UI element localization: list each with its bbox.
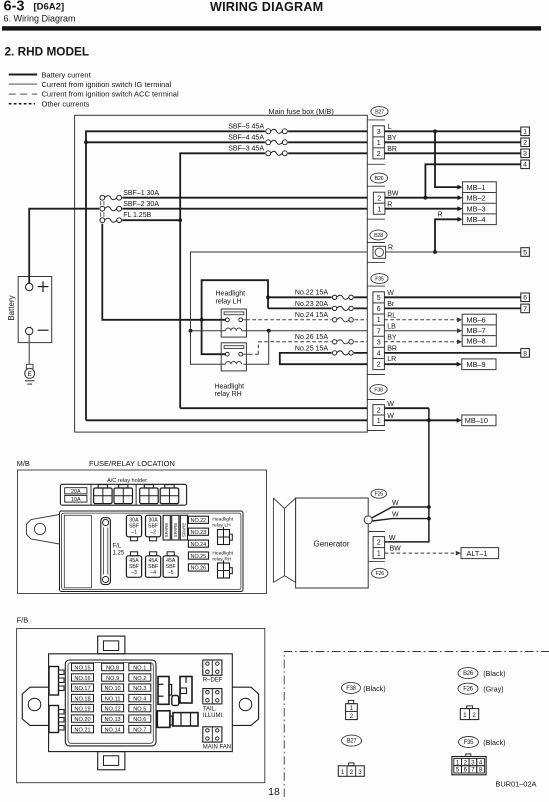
svg-text:Battery: Battery	[7, 295, 16, 320]
svg-text:NO.19: NO.19	[74, 706, 90, 712]
svg-text:2: 2	[377, 151, 381, 158]
fuse slot	[129, 725, 151, 732]
wire battery negative	[28, 335, 30, 365]
svg-text:SBF–4 45A: SBF–4 45A	[228, 135, 264, 142]
wire SBF-3	[180, 153, 367, 408]
svg-text:2: 2	[377, 540, 381, 547]
legend other currents	[9, 103, 35, 105]
svg-text:NO.15: NO.15	[74, 665, 90, 671]
svg-text:NO.1: NO.1	[133, 665, 146, 671]
svg-text:NO.22: NO.22	[191, 518, 207, 524]
svg-text:(Gray): (Gray)	[483, 685, 503, 694]
svg-text:2: 2	[377, 407, 381, 414]
svg-text:NO.8: NO.8	[106, 665, 119, 671]
fuse No.24 15A	[332, 317, 355, 324]
svg-text:–5: –5	[168, 570, 174, 576]
svg-text:[D6A2]: [D6A2]	[34, 2, 65, 13]
wire relay supply rect	[202, 280, 268, 320]
svg-text:WIRING DIAGRAM: WIRING DIAGRAM	[210, 0, 323, 14]
fuse slot	[72, 684, 94, 691]
svg-text:F/L: F/L	[113, 544, 122, 550]
svg-text:2: 2	[377, 362, 381, 369]
legend IG current	[9, 83, 38, 85]
svg-text:NO.9: NO.9	[106, 676, 119, 682]
svg-text:18: 18	[268, 786, 280, 797]
wire L to terminal 1	[384, 130, 520, 132]
F/B bottom tab	[98, 752, 125, 770]
MB-10 box	[462, 415, 496, 426]
connector B26	[370, 173, 387, 183]
M/B location frame	[18, 470, 267, 594]
wire MB-1	[435, 131, 458, 187]
fuse SBF-1 30A	[102, 197, 367, 199]
svg-text:NO.11: NO.11	[105, 696, 121, 702]
fuse SBF-2 30A	[102, 208, 367, 210]
svg-text:6-3: 6-3	[4, 0, 25, 15]
wire generator W upper	[372, 507, 429, 518]
svg-text:NO.6: NO.6	[133, 717, 146, 723]
connector B27	[371, 107, 388, 117]
No.22-26 slots	[188, 516, 208, 523]
SBF fuse	[146, 556, 161, 578]
svg-text:1: 1	[377, 317, 381, 324]
wire left bus	[102, 223, 201, 320]
fuse slot	[129, 663, 151, 670]
svg-text:MAIN FAN: MAIN FAN	[203, 744, 231, 750]
svg-text:20A: 20A	[71, 489, 81, 495]
svg-text:RL: RL	[387, 312, 396, 319]
svg-text:BR: BR	[387, 146, 397, 153]
fuse SBF-4 45A	[265, 139, 288, 146]
MB-6..8 boxes	[462, 314, 496, 346]
svg-text:W: W	[387, 413, 394, 420]
svg-text:MB–2: MB–2	[467, 194, 486, 203]
wire BR to terminal 8	[384, 352, 520, 354]
svg-text:Other currents: Other currents	[42, 99, 90, 108]
svg-text:Headlight: Headlight	[216, 291, 246, 298]
svg-text:Battery current: Battery current	[42, 70, 92, 79]
svg-text:NO.14: NO.14	[105, 727, 121, 733]
svg-text:NO.10: NO.10	[105, 686, 121, 692]
terminal box 5	[521, 248, 530, 257]
F/B middle cluster	[158, 677, 169, 705]
fuse No.26 15A	[332, 339, 355, 346]
connector view F26	[458, 683, 478, 694]
svg-text:NO.3: NO.3	[133, 686, 146, 692]
svg-text:F26: F26	[376, 571, 385, 577]
terminal box 4	[521, 160, 530, 169]
svg-text:NO.20: NO.20	[74, 717, 90, 723]
svg-text:W: W	[392, 511, 399, 518]
svg-text:ILLUMI.: ILLUMI.	[203, 713, 224, 719]
wire RH contact to No.26	[243, 353, 249, 355]
header rule	[2, 26, 541, 30]
svg-text:BUR01–02A: BUR01–02A	[495, 780, 536, 789]
svg-text:5: 5	[377, 295, 381, 302]
svg-text:MB–1: MB–1	[467, 183, 486, 192]
svg-text:NO.12: NO.12	[105, 706, 121, 712]
svg-text:No.23 20A: No.23 20A	[295, 301, 328, 308]
wire F38 W pin2	[180, 407, 367, 409]
connector view F35	[459, 737, 479, 748]
fuse slot	[72, 663, 94, 670]
fuse FL 1.25B	[102, 219, 180, 221]
svg-text:MB–8: MB–8	[467, 337, 486, 346]
wire LB branch down	[244, 331, 269, 365]
svg-text:7: 7	[523, 306, 527, 313]
junction supply/No.22	[266, 295, 270, 299]
svg-text:NO.17: NO.17	[74, 686, 90, 692]
svg-text:M/B: M/B	[17, 459, 30, 468]
fuse slot	[102, 663, 124, 670]
svg-text:R: R	[387, 201, 392, 208]
svg-text:Headlight: Headlight	[212, 517, 233, 523]
wire SBF-5 feed	[86, 131, 367, 420]
fuse slot	[102, 694, 124, 701]
wire battery positive	[29, 209, 102, 284]
wire B28 R to terminal 5	[386, 251, 521, 253]
svg-text:1: 1	[377, 418, 381, 425]
connector view F38	[342, 682, 361, 693]
svg-text:LR: LR	[387, 356, 396, 363]
relay socket	[114, 488, 133, 504]
fuse slot	[72, 704, 94, 711]
svg-text:MB–3: MB–3	[467, 204, 486, 213]
SBF fuse	[163, 556, 178, 578]
legend ACC current	[9, 93, 38, 95]
svg-text:NO.7: NO.7	[133, 727, 146, 733]
svg-text:4: 4	[377, 351, 381, 358]
spare fuses	[163, 515, 170, 540]
svg-text:SBF–5 45A: SBF–5 45A	[228, 124, 264, 131]
svg-text:BY: BY	[387, 135, 397, 142]
generator body	[296, 498, 369, 588]
F/B left connectors	[49, 667, 59, 696]
wire F38 W pin1 / MB-10	[86, 419, 367, 421]
svg-text:NO.26: NO.26	[191, 566, 207, 572]
svg-text:NO.18: NO.18	[74, 696, 90, 702]
fuse slot	[72, 725, 94, 732]
relay socket	[160, 488, 179, 504]
wire generator column	[385, 408, 429, 542]
svg-text:NO.5: NO.5	[133, 706, 146, 712]
svg-text:–4: –4	[150, 570, 156, 576]
svg-text:3: 3	[377, 129, 381, 136]
svg-text:W: W	[387, 401, 394, 408]
wire BY to terminal 2	[384, 141, 520, 143]
svg-text:MB–7: MB–7	[467, 326, 486, 335]
svg-text:B26: B26	[375, 176, 384, 182]
wire No.22	[268, 296, 367, 298]
svg-text:W: W	[392, 500, 399, 507]
svg-text:B27: B27	[347, 739, 358, 745]
connector view B26	[458, 668, 478, 679]
wire Br to terminal 7	[384, 307, 520, 309]
connector F25/F26 pins	[368, 531, 385, 533]
svg-text:4: 4	[523, 162, 527, 169]
wire SBF-4	[86, 141, 367, 143]
SBF fuse	[126, 556, 141, 578]
svg-text:TAIL.: TAIL.	[203, 706, 217, 712]
relay R-DEF	[203, 660, 222, 675]
F/B frame	[17, 629, 265, 783]
svg-text:E: E	[28, 371, 32, 378]
svg-text:FUSE/RELAY LOCATION: FUSE/RELAY LOCATION	[89, 459, 175, 468]
wire W to terminal 6	[384, 296, 520, 298]
MB-9 box	[462, 359, 496, 370]
wire to terminal 4	[425, 164, 520, 197]
fuse No.25 15A	[332, 350, 355, 357]
fuse slot	[102, 715, 124, 722]
svg-text:1: 1	[523, 129, 527, 136]
svg-text:BY: BY	[387, 334, 397, 341]
connector F25	[371, 489, 387, 498]
wire B28 R inside	[191, 252, 368, 331]
svg-text:B26: B26	[463, 671, 474, 677]
relay socket	[140, 488, 159, 504]
blank column	[64, 515, 91, 588]
connector view B27	[342, 735, 362, 746]
section border dash-dot	[284, 652, 549, 798]
svg-text:No.26 15A: No.26 15A	[295, 334, 328, 341]
svg-text:relay RH: relay RH	[212, 557, 231, 563]
svg-text:6: 6	[523, 295, 527, 302]
svg-text:A/C relay holder: A/C relay holder	[107, 478, 147, 484]
junction SBF-4 tap	[84, 140, 88, 144]
svg-text:NO.24: NO.24	[191, 542, 207, 548]
fuse slot	[102, 704, 124, 711]
svg-text:MB–6: MB–6	[467, 315, 486, 324]
ALT-1 box	[461, 548, 499, 559]
wire BW / MB-2	[385, 197, 458, 199]
svg-text:R: R	[438, 212, 443, 219]
fuse No.22 15A	[332, 294, 355, 301]
svg-text:5: 5	[523, 249, 527, 256]
svg-text:W: W	[387, 290, 394, 297]
svg-text:NO.25: NO.25	[191, 554, 207, 560]
svg-text:Current from ignition switch A: Current from ignition switch ACC termina…	[42, 90, 179, 99]
ground E	[26, 364, 33, 369]
legend battery current	[9, 74, 38, 76]
fuse slot	[102, 674, 124, 681]
svg-text:BR: BR	[387, 346, 397, 353]
svg-text:No.25 15A: No.25 15A	[295, 345, 328, 352]
svg-text:8: 8	[523, 350, 527, 357]
svg-text:(Black): (Black)	[363, 684, 385, 693]
F/B right ear	[232, 687, 258, 725]
svg-text:SBF–3 45A: SBF–3 45A	[228, 146, 264, 153]
svg-text:F25: F25	[375, 492, 384, 498]
svg-text:3: 3	[523, 151, 527, 158]
svg-text:NO.2: NO.2	[133, 676, 146, 682]
svg-text:–2: –2	[150, 530, 156, 536]
wire generator W lower	[372, 519, 429, 521]
svg-text:R: R	[388, 245, 393, 252]
fuse SBF-5 45A	[265, 128, 288, 135]
F/B left ear	[22, 687, 48, 725]
svg-text:1.25: 1.25	[113, 551, 125, 557]
wire RH coil return	[191, 331, 226, 365]
svg-text:MB–4: MB–4	[467, 215, 486, 224]
fuse slot	[72, 694, 94, 701]
svg-text:10A: 10A	[71, 497, 81, 503]
wire BY / MB-8	[384, 341, 457, 343]
svg-text:R–DEF: R–DEF	[203, 677, 223, 683]
wire BW to ALT-1	[385, 552, 457, 554]
svg-text:FL 1.25B: FL 1.25B	[123, 212, 151, 219]
fuse slot	[72, 674, 94, 681]
svg-text:relay LH: relay LH	[216, 298, 242, 305]
svg-text:SPARE: SPARE	[181, 523, 186, 538]
svg-text:1: 1	[377, 140, 381, 147]
svg-text:MB–9: MB–9	[467, 360, 486, 369]
SBF fuse	[126, 515, 141, 537]
svg-text:Headlight: Headlight	[212, 550, 233, 556]
svg-text:1: 1	[377, 206, 381, 213]
svg-text:1: 1	[377, 551, 381, 558]
generator pulley	[273, 498, 295, 582]
svg-text:2. RHD MODEL: 2. RHD MODEL	[5, 45, 90, 59]
fuse slot	[72, 715, 94, 722]
svg-text:BW: BW	[390, 546, 402, 553]
relay MAIN FAN	[203, 727, 222, 742]
relay socket	[94, 488, 113, 504]
svg-text:F38: F38	[374, 388, 383, 394]
svg-text:–1: –1	[131, 530, 137, 536]
wire MB-4	[435, 219, 458, 252]
terminal box 1	[521, 127, 530, 136]
svg-text:2: 2	[523, 140, 527, 147]
fusible link F/L 1.25	[101, 518, 111, 585]
wire RL / MB-6	[384, 319, 457, 321]
wire relay RH feed	[202, 320, 226, 354]
fuse slot	[102, 684, 124, 691]
wire LB / MB-7	[384, 330, 457, 332]
svg-text:MB–10: MB–10	[465, 416, 488, 425]
svg-text:NO.21: NO.21	[74, 727, 90, 733]
SBF fuse	[146, 515, 161, 537]
svg-text:No.22 15A: No.22 15A	[295, 290, 328, 297]
svg-text:SBF–1 30A: SBF–1 30A	[123, 190, 159, 197]
node L junction	[433, 129, 437, 133]
svg-text:NO.4: NO.4	[133, 696, 146, 702]
relay TAIL ILLUMI	[203, 689, 222, 704]
svg-text:Br: Br	[387, 301, 395, 308]
fuse No.23 20A	[332, 305, 355, 312]
connector F35	[371, 274, 388, 284]
svg-text:F35: F35	[375, 277, 384, 283]
svg-text:SBF–2 30A: SBF–2 30A	[123, 201, 159, 208]
svg-text:BW: BW	[387, 190, 399, 197]
svg-text:F26: F26	[463, 687, 473, 693]
svg-text:(Black): (Black)	[483, 669, 505, 678]
terminal box 2	[521, 138, 530, 147]
svg-text:Generator: Generator	[313, 540, 349, 549]
mounting tab	[27, 515, 60, 545]
fuse slot	[102, 725, 124, 732]
svg-text:SPARE: SPARE	[164, 523, 169, 538]
svg-text:W: W	[389, 535, 396, 542]
junction relay feed	[200, 318, 204, 322]
svg-text:2: 2	[377, 195, 381, 202]
connector F38	[370, 385, 387, 395]
fuse slot	[129, 715, 151, 722]
svg-text:Main fuse box (M/B): Main fuse box (M/B)	[269, 107, 334, 116]
fuse slot	[129, 694, 151, 701]
svg-text:NO.16: NO.16	[74, 676, 90, 682]
fuse slot	[129, 704, 151, 711]
svg-text:7: 7	[377, 328, 381, 335]
svg-text:L: L	[388, 124, 392, 131]
svg-text:NO.13: NO.13	[105, 717, 121, 723]
F/B top tab	[98, 636, 125, 654]
connector B28	[370, 230, 387, 240]
wire R / MB-3	[385, 208, 458, 210]
svg-text:F35: F35	[464, 740, 474, 746]
svg-text:ALT–1: ALT–1	[467, 549, 488, 558]
svg-text:relay LH: relay LH	[212, 523, 231, 529]
wire LB / LH coil	[191, 330, 226, 332]
svg-text:3: 3	[377, 339, 381, 346]
fuse slot	[129, 684, 151, 691]
svg-text:–3: –3	[131, 570, 137, 576]
terminal box 3	[521, 149, 530, 158]
battery	[18, 277, 52, 343]
fuse slot	[129, 674, 151, 681]
F/B fuse panel	[65, 660, 156, 746]
svg-text:F38: F38	[346, 686, 356, 692]
generator terminal	[364, 516, 372, 524]
svg-text:B28: B28	[374, 233, 383, 239]
svg-text:6. Wiring Diagram: 6. Wiring Diagram	[4, 14, 76, 24]
connector F26	[372, 568, 388, 578]
wire LR / MB-9	[384, 363, 457, 365]
svg-text:B27: B27	[375, 110, 384, 116]
MB-1..4 boxes	[463, 182, 497, 225]
F/B body	[49, 654, 233, 752]
wire No.25 feed loop	[280, 353, 368, 364]
wire BR to terminal 3	[384, 152, 520, 154]
svg-text:NO.23: NO.23	[191, 530, 207, 536]
wire No.23	[268, 307, 367, 309]
svg-text:LB: LB	[387, 323, 396, 330]
fuse SBF-3 45A	[265, 150, 288, 157]
M/B main box	[60, 511, 244, 592]
svg-text:relay RH: relay RH	[215, 391, 242, 398]
svg-text:SPARE: SPARE	[173, 523, 178, 538]
svg-text:Current from ignition switch I: Current from ignition switch IG terminal	[42, 80, 172, 89]
wire No.24 from LH contact	[243, 319, 247, 321]
junction FL to SBF-3 column	[178, 218, 182, 222]
svg-text:F/B: F/B	[17, 616, 29, 625]
svg-text:6: 6	[377, 306, 381, 313]
svg-text:(Black): (Black)	[483, 738, 505, 747]
svg-text:No.24 15A: No.24 15A	[295, 312, 328, 319]
svg-text:Headlight: Headlight	[215, 383, 245, 390]
